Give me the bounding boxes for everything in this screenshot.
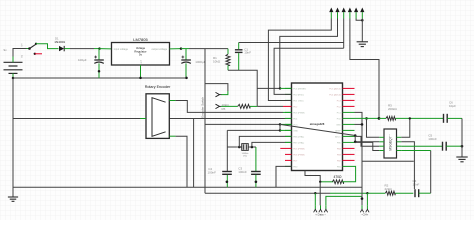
ground symbol header <box>357 42 368 47</box>
battery BT1 9v <box>4 48 23 73</box>
svg-text:Rotary Encoder: Rotary Encoder <box>145 85 171 89</box>
wire chip gnd to rail <box>276 166 292 187</box>
wire regulator output <box>170 47 183 50</box>
resistor R1 10kΩ <box>213 49 230 71</box>
ground symbol bottom-left <box>8 197 18 201</box>
wire R6 branch to msgeq7 p1 <box>365 117 379 137</box>
wire R1-C1 bottom run <box>228 70 257 106</box>
svg-text:+ Data –: + Data – <box>315 213 326 217</box>
capacitor C6 10µF <box>444 101 463 123</box>
regulator U2 LM7805 <box>112 37 170 65</box>
wire diagonal to msgeq7 p2 <box>280 124 379 143</box>
switch SW1 <box>28 43 37 50</box>
svg-text:PD5 (PWM): PD5 (PWM) <box>293 148 304 150</box>
wire crystal right up to chip <box>251 142 292 148</box>
junction vertical rows7-8 <box>279 124 281 130</box>
svg-text:470Ω: 470Ω <box>334 175 343 179</box>
wire msgeq7 p3R to C5 <box>401 145 442 147</box>
switch unconnected throw <box>34 53 42 55</box>
rotary encoder ENC1 <box>145 85 171 139</box>
svg-text:GND: GND <box>293 130 298 132</box>
rail to encoder (y118.5) <box>13 118 292 120</box>
encoder switch SW2 <box>201 92 222 117</box>
atmega328 pin legs <box>280 88 354 166</box>
wire chip R7 to gnd vertical <box>355 123 364 126</box>
wire C7 to regulator <box>100 48 112 50</box>
wire to C3 top <box>254 147 256 171</box>
svg-text:Encoder Switch: Encoder Switch <box>201 97 205 118</box>
svg-text:10nF: 10nF <box>244 51 251 55</box>
wire arrow3 to C1 <box>343 19 345 49</box>
switch SW1 labels <box>22 43 24 58</box>
header arrow CTS <box>354 8 358 19</box>
wire chip R10 to msgeq7 p4 <box>355 142 380 150</box>
wire arrow4 to msgeq7 strobe <box>350 19 379 119</box>
wire encoder B down <box>169 136 187 187</box>
svg-text:PC6 (RESET): PC6 (RESET) <box>293 88 306 90</box>
wire +5V bottom run <box>205 192 369 194</box>
encoder common pin stub <box>140 118 146 120</box>
wire data to terminal <box>319 182 321 206</box>
svg-text:16MHz: 16MHz <box>242 153 249 155</box>
svg-text:100nF: 100nF <box>238 170 247 174</box>
left rail vertical <box>12 78 14 197</box>
resistor R3 200kΩ <box>379 103 444 120</box>
ground symbol right <box>456 157 467 162</box>
svg-text:PD1 (TXD): PD1 (TXD) <box>293 100 303 102</box>
wire xtal1 riser <box>226 130 228 171</box>
ground rail (top, y78) <box>13 77 187 79</box>
wire arrow2 to reset junction <box>280 19 338 89</box>
capacitor C2 100nF <box>208 167 232 187</box>
wire gnd branch under msgeq7 <box>362 160 414 162</box>
wire data- terminal to gnd <box>326 196 362 205</box>
wire to crystal left <box>227 146 240 149</box>
svg-text:(Y1): (Y1) <box>243 156 247 158</box>
svg-text:PD0 (RXD): PD0 (RXD) <box>293 94 304 96</box>
svg-text:PB6 (XTAL): PB6 (XTAL) <box>293 135 304 138</box>
svg-text:100nF: 100nF <box>208 171 217 175</box>
svg-text:PC4 (ADC4): PC4 (ADC4) <box>329 93 341 96</box>
svg-text:10µF: 10µF <box>449 104 456 108</box>
svg-text:PD6 (PWM): PD6 (PWM) <box>293 154 304 156</box>
wire msgeq7 p2R to C4 <box>401 142 414 189</box>
crystal Y1 16MHz <box>237 144 254 158</box>
svg-text:AVCC: AVCC <box>335 135 341 138</box>
bottom ground rail (y186.8) <box>13 186 362 188</box>
capacitor C5 100nF <box>428 134 463 151</box>
svg-text:10nF: 10nF <box>413 182 420 186</box>
svg-text:100nF: 100nF <box>428 137 437 141</box>
diode D1 1N4001 <box>54 37 65 52</box>
wire C7 to ground rail <box>98 63 101 78</box>
header arrow GND <box>360 8 364 19</box>
wire switch to diode <box>36 44 59 49</box>
terminal J2 -CH+ <box>360 205 369 216</box>
svg-text:MSGEQ7 ˆ: MSGEQ7 ˆ <box>388 134 392 151</box>
wire arrow6 to gnd <box>361 19 363 42</box>
wire gnd link rail-to-rail <box>193 118 195 187</box>
svg-text:9v: 9v <box>4 48 8 52</box>
header arrow VCC <box>348 8 352 19</box>
svg-text:100µF: 100µF <box>78 58 87 62</box>
svg-text:PB7 (XTAL): PB7 (XTAL) <box>293 141 304 144</box>
svg-text:GND: GND <box>336 124 341 126</box>
wire regulator gnd pin <box>139 65 142 79</box>
svg-text:22kΩ: 22kΩ <box>385 187 393 191</box>
wire C8 to ground rail <box>185 63 188 79</box>
svg-text:LM7805: LM7805 <box>133 37 148 42</box>
capacitor C8 1000µF <box>181 49 205 65</box>
wire diode to C7 junction <box>64 47 101 50</box>
wire chip R5 down to terminals <box>355 112 364 205</box>
wire encoder A to chip <box>169 101 291 113</box>
capacitor C4 10nF <box>413 179 431 197</box>
svg-text:10kΩ: 10kΩ <box>213 60 221 64</box>
wire +5V bus top <box>181 48 228 50</box>
wire audio+ up <box>366 193 368 205</box>
wire chip R6 to strobe net <box>355 117 381 120</box>
svg-text:PC5 (ADC5): PC5 (ADC5) <box>329 87 341 90</box>
svg-text:Off: Off <box>22 43 24 46</box>
wire C6 C5 to gnd <box>461 118 463 157</box>
wire crystal left up to chip <box>239 136 291 147</box>
wire arrow1 to chip PD1 <box>268 19 331 101</box>
svg-text:AREF: AREF <box>335 129 341 132</box>
svg-text:1000µF: 1000µF <box>195 60 205 64</box>
svg-text:–CH+: –CH+ <box>361 213 369 217</box>
header arrow RXD <box>335 8 339 19</box>
terminal J1 +Data- <box>314 205 328 216</box>
svg-text:200kΩ: 200kΩ <box>388 107 398 111</box>
svg-text:R5: R5 <box>222 107 226 111</box>
header arrow TXD <box>342 8 346 19</box>
wire C4 to msgeq7 <box>430 151 432 194</box>
svg-text:1N4001: 1N4001 <box>54 40 65 44</box>
svg-text:PD3 (PWM): PD3 (PWM) <box>293 112 304 114</box>
wire battery+ to switch <box>13 49 30 63</box>
wire +5V vertical x205 <box>204 49 206 194</box>
IC U1 atmega328 <box>292 83 343 171</box>
wire C1 top to header <box>239 42 344 44</box>
resistor R5 10kΩ <box>221 103 257 111</box>
wire reset net to chip <box>257 87 291 90</box>
header arrow DTR <box>329 8 333 19</box>
wire chip R9 to msgeq7 p3 <box>355 136 380 146</box>
wire +5V to encoder switch <box>205 84 228 95</box>
wire battery- to ground rail <box>12 73 15 79</box>
wire R5 net stub <box>257 105 283 107</box>
capacitor C3 100nF <box>238 166 260 187</box>
capacitor C1 10nF <box>235 43 251 71</box>
capacitor C7 100µF <box>78 49 104 64</box>
wire arrow3 branch to chip PD0 <box>274 48 344 94</box>
wire arrow5 to gnd <box>356 19 363 22</box>
svg-text:atmega328: atmega328 <box>310 122 325 126</box>
svg-text:gnd: gnd <box>141 60 143 63</box>
resistor R2 22kΩ <box>368 183 414 195</box>
wire msgeq7 p1R up <box>401 117 411 137</box>
wire VCC row to chip <box>205 123 292 126</box>
wire xtal1 row to chip <box>227 129 291 132</box>
svg-text:output voltage: output voltage <box>151 48 167 51</box>
wire +5V to data+ terminal <box>314 193 316 205</box>
svg-text:input voltage: input voltage <box>114 48 129 51</box>
IC U3 MSGEQ7 <box>379 129 401 158</box>
resistor R4 470Ω <box>305 166 356 183</box>
wire msgeq7 p4R down <box>401 150 430 152</box>
